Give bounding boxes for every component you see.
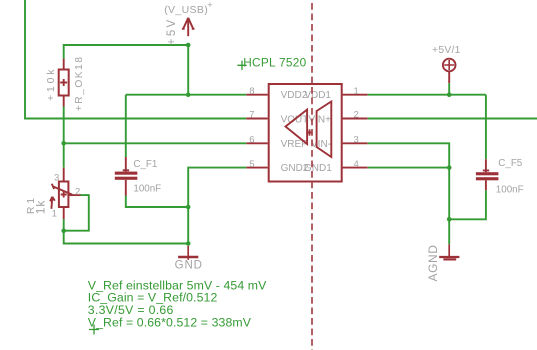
capacitor C_F1 [115,157,138,196]
wire R1 bottom to junction [63,219,65,231]
wire VDD1 net pin 1 [368,94,486,96]
wire VIN- net pin 3 [368,143,450,167]
wire R1 wiper loop [64,195,89,231]
svg-text:100nF: 100nF [496,184,524,195]
origin cross of note text [89,325,99,335]
pin stub 7 [246,118,267,120]
node junction VDD2/+5V at (188,95) [186,92,191,97]
isolation barrier dashed line [311,3,313,350]
wire VIN+ net pin 2 off-page [368,118,537,120]
svg-text:8: 8 [249,86,254,97]
svg-text:+5V/1: +5V/1 [432,45,461,56]
svg-text:1: 1 [354,86,359,97]
svg-text:GND: GND [175,259,203,271]
svg-text:C_F1: C_F1 [133,159,157,170]
IC U1 HCPL 7520 box [269,84,342,182]
svg-text:2: 2 [75,187,80,198]
wire VREF down to R1 pin3 [63,143,65,167]
wire VDD2 net pin 8 [126,94,247,96]
ground GND symbol [178,246,198,260]
svg-text:6: 6 [249,135,254,146]
pin stub 6 [246,142,267,144]
svg-text:3: 3 [354,135,359,146]
svg-text:7: 7 [249,110,254,121]
node junction at (188,243.5) [186,241,191,246]
svg-text:+: + [207,0,212,10]
node junction at (188,207) [186,205,191,210]
svg-text:VDD1: VDD1 [304,90,331,101]
node junction +5V/1 at (449,95) [447,92,452,97]
svg-text:5: 5 [249,159,254,170]
wire R_OK18 bottom to VREF net [63,107,65,144]
pin stub 8 [246,94,267,96]
svg-text:+10k: +10k [45,67,57,101]
svg-text:GND1: GND1 [304,163,332,174]
wire down to AGND [448,219,450,244]
pin stub 4 [343,167,368,169]
wire C_F5 bottom to AGND node [449,190,486,219]
wire VOUT net: off-page vertical at left [25,0,246,119]
wire GND2 pin5 corner [188,168,246,244]
pin stub 5 [246,167,267,169]
node junction at (449,219.3) [447,217,452,222]
pin stub 1 [343,94,368,96]
svg-text:+5V: +5V [166,18,178,46]
svg-text:HCPL 7520: HCPL 7520 [243,55,306,69]
supply +5V/1 symbol [443,59,456,83]
wire pot node to GND net [64,231,189,244]
node junction pot bottom (64,231) [61,228,66,233]
wire VDD1 down to C_F5 [485,95,487,160]
svg-text:C_F5: C_F5 [498,158,523,169]
wire VDD2 down to C_F1 [125,95,127,157]
svg-text:AGND: AGND [426,244,440,281]
wire C_F1 bottom to GND node [126,196,188,208]
node junction VREF at (64,143) [61,141,66,146]
svg-text:VIN-: VIN- [311,139,331,150]
svg-text:2: 2 [354,110,359,121]
wire +5V/1 stub green [448,83,450,95]
potentiometer R1 [50,168,80,220]
ground AGND symbol [439,244,459,259]
pin stub 3 [343,142,368,144]
svg-text:100nF: 100nF [133,184,161,195]
pin stub 2 [343,118,368,120]
svg-text:3: 3 [54,173,59,184]
svg-text:4: 4 [354,159,359,170]
svg-text:1: 1 [52,208,57,219]
resistor R_OK18 [59,59,69,107]
svg-text:(V_USB): (V_USB) [164,4,208,16]
supply V_USB arrow [182,18,195,36]
wire GND1 down to AGND node [448,168,450,220]
wire GND1 net pin 4 [368,167,450,169]
capacitor C_F5 [476,159,499,190]
origin cross of IC label [237,61,246,70]
wire +5V net horizontal to V_USB junction [64,45,189,95]
node junction +5V at (188,45) [186,43,191,48]
modulator trapezoid inside U1 [317,102,332,158]
op-amp output triangle inside U1 [286,110,308,144]
svg-text:1k: 1k [34,200,48,215]
wire VREF net pin 6 [64,142,247,144]
origin cross of U1 [306,129,312,135]
svg-text:V_Ref = 0.66*0.512 = 338mV: V_Ref = 0.66*0.512 = 338mV [88,316,252,330]
node junction at (449,167.6) [447,165,452,170]
svg-text:+R_OK18: +R_OK18 [74,55,85,111]
